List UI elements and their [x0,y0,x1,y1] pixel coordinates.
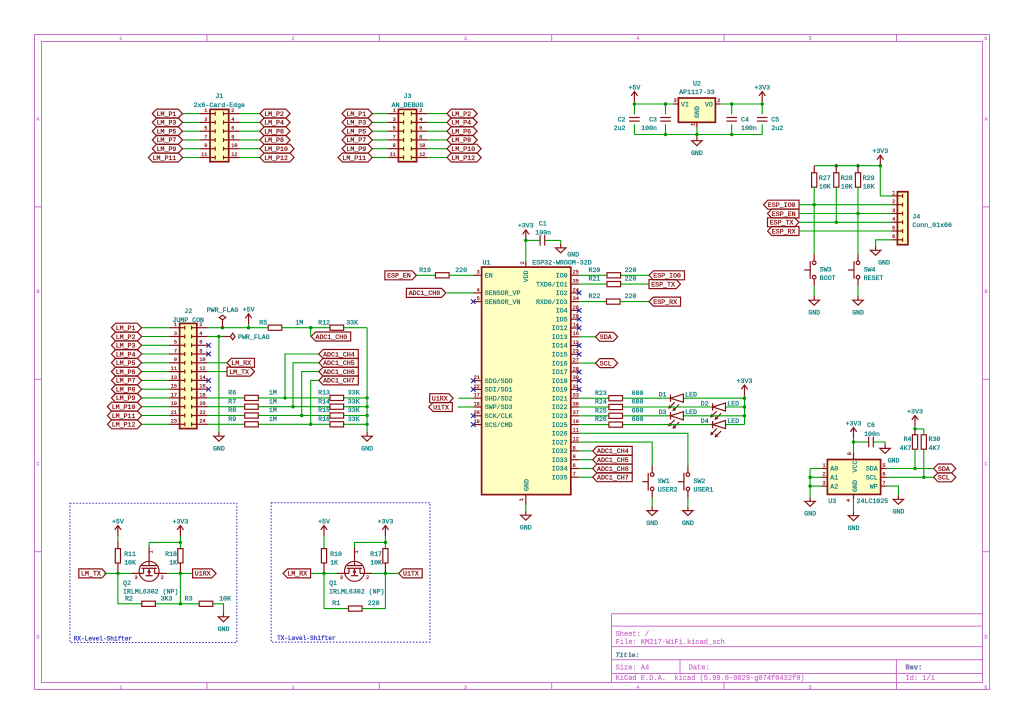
svg-text:8: 8 [573,445,576,451]
svg-text:SCS/CMD: SCS/CMD [485,422,513,429]
svg-text:ESP_EN: ESP_EN [772,211,796,218]
pin 11 of J2 [169,371,180,373]
global label U1RX [430,394,454,403]
svg-text:2u2: 2u2 [771,125,783,132]
wire pin4 to ground [218,337,220,433]
svg-text:23: 23 [171,419,177,425]
ground [884,444,886,448]
global label U1TX [399,569,423,578]
svg-text:IO18: IO18 [552,378,568,385]
svg-text:4K7: 4K7 [900,445,912,452]
global label ADC1_CH4 [319,350,359,359]
svg-text:LM_P6: LM_P6 [451,129,471,136]
svg-text:IO26: IO26 [552,431,568,438]
pin 5 of U1 SENSOR_VN [473,301,481,303]
wire LM_P11 [372,157,387,159]
global label ADC1_CH6 [593,464,633,473]
power +3V3 [879,155,881,166]
wire [579,459,593,461]
svg-text:10K: 10K [370,559,382,566]
svg-text:SDA: SDA [600,334,612,341]
svg-text:33K: 33K [348,398,360,405]
svg-text:D2: D2 [701,400,709,407]
svg-text:VDD: VDD [523,270,530,282]
global label LM_P2 [260,109,290,118]
wire LM_P5 [372,130,387,132]
pin 1 of J3 [388,113,399,115]
svg-text:R2: R2 [125,595,133,602]
svg-text:9: 9 [573,454,576,460]
wire LM_P1 [372,113,387,115]
svg-text:D: D [36,635,39,641]
resistor R11 [117,536,119,541]
wire pin6 to ground [876,240,892,246]
svg-text:3: 3 [477,270,480,276]
svg-text:6: 6 [419,126,422,132]
svg-text:+3V3: +3V3 [377,518,393,525]
svg-text:IO14: IO14 [552,343,568,350]
svg-text:10: 10 [419,143,425,149]
svg-text:C1: C1 [539,221,547,228]
pin 12 of U1 IO27 [571,441,579,443]
wire [726,406,745,408]
svg-text:4: 4 [231,117,234,123]
ground [218,432,220,436]
resistor R16 [330,422,344,427]
svg-text:1: 1 [822,463,825,469]
svg-text:C: C [984,462,987,468]
svg-text:U1RX: U1RX [432,396,448,403]
svg-text:10: 10 [573,419,579,425]
svg-text:VI: VI [681,102,689,109]
pin 7 of U1 IO35 [571,476,579,478]
svg-text:SDA: SDA [866,466,878,473]
svg-text:SW1: SW1 [658,478,670,485]
svg-text:ADC1_CH5: ADC1_CH5 [323,360,355,367]
wire LM_P6 [427,130,447,132]
junction [309,423,312,426]
svg-text:2: 2 [520,261,526,264]
wire LM_P2 [240,113,260,115]
svg-text:1: 1 [119,685,122,691]
wire U1TX [458,406,474,408]
svg-text:IO23: IO23 [552,413,568,420]
svg-text:9: 9 [393,143,396,149]
no-connect [577,326,582,331]
svg-text:220: 220 [455,267,467,274]
svg-text:VCC: VCC [852,461,859,473]
resistor R30 [915,429,924,435]
svg-text:IO33: IO33 [552,457,568,464]
svg-text:24: 24 [199,419,205,425]
wire A0 A1 A2 to ground [810,468,821,470]
svg-text:3: 3 [464,36,467,42]
svg-text:+3V3: +3V3 [518,223,534,230]
svg-text:SW4: SW4 [864,266,876,273]
svg-text:LM_P3: LM_P3 [157,120,177,127]
svg-text:5: 5 [882,463,885,469]
svg-text:A0: A0 [830,466,838,473]
wire LM_P7 [142,379,169,381]
svg-text:12: 12 [231,152,237,158]
wire LM_P3 [372,121,387,123]
wire SW2 to ground [687,498,689,507]
svg-text:R19: R19 [419,267,431,274]
power +5V [633,92,635,103]
global label LM_RX [227,358,255,367]
svg-text:D: D [984,635,987,641]
wire LM_P3 [183,121,200,123]
svg-text:GND: GND [218,626,230,633]
svg-text:SCK/CLK: SCK/CLK [485,413,513,420]
wire LM_P5 [142,362,169,364]
capacitor C1 [526,239,540,241]
wire SCL [887,476,934,478]
capacitor C2 [629,117,640,119]
wire ESP_RX [799,230,891,232]
svg-text:TXD0/IO1: TXD0/IO1 [536,281,568,288]
svg-text:6: 6 [882,472,885,478]
resistor R2 [142,601,156,606]
svg-text:25: 25 [573,270,579,276]
svg-text:U1RX: U1RX [195,571,211,578]
svg-text:4: 4 [636,36,639,42]
svg-text:37: 37 [573,410,579,416]
svg-text:5: 5 [892,225,895,231]
wire [623,424,713,426]
svg-text:D1: D1 [659,392,667,399]
svg-text:File: KM217-WiFi.kicad_sch: File: KM217-WiFi.kicad_sch [616,639,725,647]
junction [664,133,667,136]
svg-text:A: A [984,117,987,123]
svg-text:U1TX: U1TX [433,404,449,411]
wire LM_P10 [427,148,447,150]
svg-text:680: 680 [632,390,644,397]
svg-text:3: 3 [204,117,207,123]
power +5V [323,526,325,537]
pin 7 of J1 [199,139,210,141]
svg-text:IO0: IO0 [556,273,568,280]
pin 3 of J4 [891,213,897,215]
svg-text:10K: 10K [863,183,875,190]
ground [809,497,811,501]
wire ADC1_CH0 to SENSOR_VP [447,292,474,294]
svg-text:680: 680 [632,407,644,414]
wire LM_P8 [240,139,260,141]
svg-text:4: 4 [477,287,480,293]
junction [913,427,916,430]
no-connect [471,387,476,392]
svg-text:R9: R9 [228,416,236,423]
svg-text:2x6-Card-Edge: 2x6-Card-Edge [194,102,245,109]
title block [612,614,983,683]
pin 4 of J2 [197,336,208,338]
svg-text:RX-Level-Shifter: RX-Level-Shifter [74,635,133,642]
svg-text:GND: GND [804,511,816,518]
transistor Q2 IRLML6302 [139,561,159,581]
svg-text:5: 5 [204,126,207,132]
no-connect [577,317,582,322]
global label ESP_TX [649,280,681,289]
wire [696,135,698,137]
wire SCL [579,362,595,364]
svg-text:10K: 10K [819,183,831,190]
wire [684,415,745,417]
pin 12 of J1 [229,157,240,159]
transistor Q1 IRLML6302 [345,561,365,581]
wire +3V3 LED rail [744,396,746,425]
svg-text:R17: R17 [370,551,382,558]
wire ESP_IO0 [799,204,891,206]
svg-text:LM_P12: LM_P12 [451,155,475,162]
pin 1 of J4 [891,195,897,197]
wire VDD [525,240,527,261]
wire [179,573,181,603]
switch SW3 BOOT [813,254,815,261]
svg-text:1M: 1M [295,319,303,326]
svg-text:33K: 33K [348,390,360,397]
wire LM_P9 [142,397,169,399]
svg-text:Q2: Q2 [123,580,131,587]
svg-text:+3V3: +3V3 [172,518,188,525]
svg-text:5: 5 [809,685,812,691]
svg-text:U3: U3 [828,498,836,505]
resistor R26 [579,424,609,426]
wire [726,424,745,426]
junction [633,102,636,105]
svg-text:LM_P7: LM_P7 [346,137,366,144]
pin 8 of U1 IO32 [571,450,579,452]
svg-text:18: 18 [199,392,205,398]
junction [300,414,303,417]
wire U1RX [458,397,473,399]
pin 2 of U3 [821,476,827,478]
svg-text:R23: R23 [595,390,607,397]
svg-text:ADC1_CH7: ADC1_CH7 [323,378,355,385]
junction [221,326,224,329]
svg-text:LM_P1: LM_P1 [346,111,366,118]
svg-text:+3V3: +3V3 [846,420,862,427]
svg-text:GND: GND [646,520,658,527]
global label ESP_TX [768,218,800,227]
wire LM_P9 [372,148,387,150]
svg-text:IO35: IO35 [552,474,568,481]
wire LM_P6 [240,130,260,132]
pin 8 of J3 [417,139,428,141]
svg-text:2: 2 [366,575,369,581]
svg-text:LM_P10: LM_P10 [451,146,475,153]
svg-text:7: 7 [174,348,177,354]
svg-text:ADC1_CH4: ADC1_CH4 [323,351,355,358]
pin 11 of J3 [388,157,399,159]
svg-text:R8: R8 [228,407,236,414]
no-connect [206,352,211,357]
global label ESP_EN [768,209,800,218]
pin 6 of J3 [417,130,428,132]
resistor R5 [268,325,282,330]
junction [835,164,838,167]
global label LM_P7 [342,135,372,144]
junction [116,572,119,575]
no-connect [471,378,476,383]
svg-text:2: 2 [161,575,164,581]
pin 5 of J3 [388,130,399,132]
svg-text:LED: LED [685,392,697,399]
pin 10 of J1 [229,148,240,150]
pin 13 of J2 [169,379,180,381]
svg-text:100n: 100n [864,431,880,438]
eeprom U3 24LC1025 [827,460,880,495]
svg-text:A: A [36,117,39,123]
wire R1 branch [324,573,349,608]
svg-text:3: 3 [393,117,396,123]
svg-text:+5V: +5V [318,518,330,525]
svg-text:USER1: USER1 [694,487,714,494]
resistor R19 [436,273,450,278]
svg-text:10: 10 [231,143,237,149]
svg-text:3: 3 [892,208,895,214]
pin 36 of U1 IO22 [571,406,579,408]
svg-text:AP1117-33: AP1117-33 [679,89,715,96]
svg-text:LM_P5: LM_P5 [116,360,136,367]
no-connect [206,387,211,392]
LED D3 [670,412,672,419]
svg-text:LM_P7: LM_P7 [116,378,136,385]
global label LM_TX [227,367,255,376]
resistor R20 [579,274,607,276]
switch SW4 RESET [857,254,859,261]
wire LM_P6 [142,371,169,373]
module U1 ESP32-WROOM-32D [482,267,571,495]
svg-text:IO34: IO34 [552,466,568,473]
wire LM_TX to Q2 [104,572,131,574]
pin 2 of U1 VDD [525,261,527,267]
global label LM_P4 [447,118,477,127]
svg-text:R20: R20 [589,267,601,274]
global label LM_P6 [111,367,141,376]
resistor R28 [835,166,837,173]
svg-text:IO25: IO25 [552,422,568,429]
svg-text:6: 6 [892,234,895,240]
wire LM_RX to Q1 [311,572,337,574]
pin 6 of J2 [197,344,208,346]
global label LM_P9 [342,144,372,153]
svg-text:8: 8 [231,134,234,140]
resistor R15 [330,413,344,418]
resistor R12 [330,325,344,330]
svg-text:C: C [36,462,39,468]
pin 5 of J2 [169,344,180,346]
ground [651,506,653,510]
wire pull-up rail [814,166,891,196]
svg-text:ESP_EN: ESP_EN [387,273,411,280]
pin 10 of J3 [417,148,428,150]
svg-text:ESP_TX: ESP_TX [651,281,675,288]
svg-text:1: 1 [393,108,396,114]
pin 8 of J1 [229,139,240,141]
svg-text:LM_P6: LM_P6 [116,369,136,376]
switch SW1 USER2 [651,466,653,473]
svg-text:IO27: IO27 [552,439,568,446]
svg-text:SCL: SCL [600,360,612,367]
pin 1 of J2 [169,327,180,329]
svg-text:IO17: IO17 [552,369,568,376]
svg-text:SDA: SDA [938,466,950,473]
power +3V3 [914,416,916,427]
svg-text:GND: GND [888,458,900,465]
resistor R6 [208,397,245,399]
resistor R10 [323,536,325,549]
wire LM_P11 [183,157,200,159]
wire LM_TX [208,371,227,373]
svg-text:1M: 1M [269,390,277,397]
global label LM_P7 [152,135,182,144]
svg-text:+5V: +5V [243,307,255,314]
svg-text:ADC1_CH6: ADC1_CH6 [597,466,629,473]
global label SDA [596,332,618,341]
svg-text:6: 6 [573,463,576,469]
pin 17 of U1 SHD/SD2 [473,397,481,399]
pin 7 of U3 [881,485,887,487]
wire IO27 to SW1 [579,442,652,465]
pin 26 of U1 IO4 [571,309,579,311]
global label LM_P2 [447,109,477,118]
svg-text:2: 2 [292,685,295,691]
global label ADC1_CH4 [593,446,633,455]
pin 31 of U1 IO19 [571,388,579,390]
global label LM_P5 [111,358,141,367]
svg-text:100n: 100n [535,230,551,237]
no-connect [471,414,476,419]
svg-text:A2: A2 [830,483,838,490]
pin 24 of J2 [197,423,208,425]
wire R2 branch [118,573,142,603]
wire [623,406,713,408]
global label ESP_IO0 [649,271,685,280]
svg-text:LM_RX: LM_RX [287,571,307,578]
pin 18 of U1 SWP/SD3 [473,406,481,408]
svg-text:IO2: IO2 [556,290,568,297]
svg-text:LED: LED [727,400,739,407]
svg-text:BOOT: BOOT [820,275,836,282]
power +3V3 [384,526,386,537]
svg-text:+3V3: +3V3 [872,148,888,155]
svg-text:LM_P8: LM_P8 [451,137,471,144]
pin 5 of J1 [199,130,210,132]
wire [579,468,593,470]
svg-text:34: 34 [573,296,579,302]
svg-text:4K7: 4K7 [929,445,941,452]
wire R19 to EN [449,274,473,276]
junction [743,397,746,400]
svg-text:ADC1_CH4: ADC1_CH4 [597,448,629,455]
wire SW1 to ground [651,498,653,507]
wire LM_P10 [142,406,169,408]
wire R3 to ground [213,604,224,613]
pin 1 of U1 GND [525,495,527,505]
svg-text:LM_P11: LM_P11 [342,155,366,162]
svg-text:IO12: IO12 [552,325,568,332]
wire +5V net [208,327,269,329]
junction [856,212,859,215]
svg-text:ADC1_CH0: ADC1_CH0 [409,290,441,297]
junction [365,414,368,417]
resistor R8 [208,415,245,417]
svg-text:5: 5 [174,340,177,346]
wire divider [258,397,330,399]
svg-text:9: 9 [174,357,177,363]
svg-text:USER2: USER2 [658,487,678,494]
